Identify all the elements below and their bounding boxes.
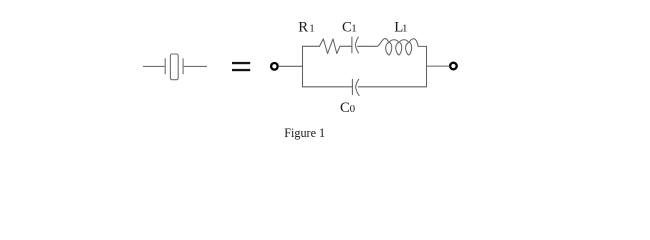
svg-text:Figure 1: Figure 1 xyxy=(284,126,325,140)
svg-text:1: 1 xyxy=(351,22,357,34)
svg-text:C: C xyxy=(340,100,350,116)
svg-text:R: R xyxy=(298,19,308,35)
svg-text:1: 1 xyxy=(402,22,408,34)
svg-text:0: 0 xyxy=(350,103,356,115)
svg-text:1: 1 xyxy=(309,22,315,34)
